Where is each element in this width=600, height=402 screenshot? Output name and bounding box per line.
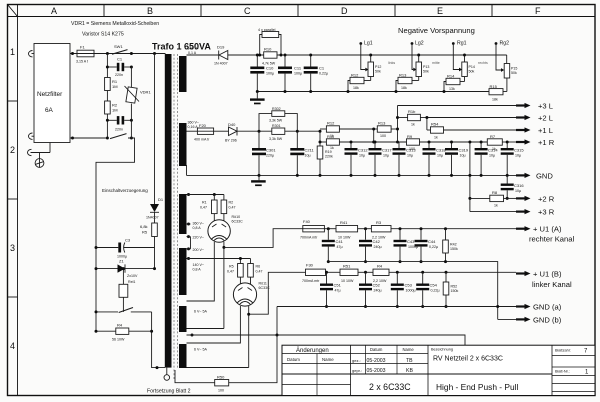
capacitor C1 bbox=[107, 57, 131, 78]
svg-text:3: 3 bbox=[10, 243, 15, 253]
potentiometer P15 bbox=[504, 55, 517, 78]
wire VDR bottom to sw row bbox=[130, 120, 132, 138]
svg-text:C3: C3 bbox=[125, 238, 131, 243]
resistor R12 bias bbox=[348, 73, 371, 92]
mains input terminal N bbox=[29, 133, 35, 139]
svg-text:F1: F1 bbox=[80, 45, 85, 50]
resistor R1b bbox=[398, 109, 427, 127]
node bus C10 bbox=[256, 90, 259, 93]
transformer secondary 6 bar bbox=[179, 344, 187, 368]
output arrow +2R bbox=[516, 195, 555, 204]
mains input terminal L bbox=[29, 51, 34, 57]
svg-text:200 V~: 200 V~ bbox=[193, 248, 205, 252]
svg-text:Rg1: Rg1 bbox=[457, 41, 467, 47]
svg-text:56 10W: 56 10W bbox=[112, 338, 125, 342]
resistor R3 bbox=[371, 220, 516, 240]
svg-text:1M: 1M bbox=[112, 108, 118, 113]
resistor R51 bbox=[340, 264, 373, 284]
svg-text:C317: C317 bbox=[382, 148, 392, 153]
svg-text:High - End Push - Pull: High - End Push - Pull bbox=[436, 382, 519, 392]
svg-text:18k: 18k bbox=[353, 86, 359, 90]
svg-text:05-2003: 05-2003 bbox=[367, 358, 386, 364]
capacitor C44 bbox=[415, 229, 439, 263]
svg-text:0,22µ: 0,22µ bbox=[319, 72, 328, 76]
svg-text:F30: F30 bbox=[306, 263, 314, 268]
resistor R42 bbox=[443, 229, 458, 262]
node N out bbox=[71, 137, 74, 140]
resistor R6 tube bbox=[248, 259, 263, 285]
svg-text:C42: C42 bbox=[373, 239, 381, 244]
winding tap to tube2 bbox=[187, 257, 251, 272]
svg-text:240µ: 240µ bbox=[374, 289, 382, 293]
resistor R1 bbox=[105, 78, 118, 91]
heater wire tube2 a bbox=[187, 306, 241, 343]
resistor R13 out bbox=[374, 121, 398, 139]
svg-text:C301: C301 bbox=[266, 148, 276, 153]
svg-text:0,47: 0,47 bbox=[200, 206, 207, 210]
node C52 bbox=[364, 271, 367, 274]
svg-text:1k: 1k bbox=[494, 204, 498, 208]
resistor R15 bias bbox=[489, 78, 507, 102]
node R52 top bbox=[445, 271, 448, 274]
resistor R4 softstart bbox=[96, 323, 152, 342]
main GND bus bbox=[187, 174, 517, 176]
svg-text:100: 100 bbox=[218, 389, 224, 393]
resistor R10 bbox=[262, 47, 277, 66]
svg-text:C314: C314 bbox=[488, 148, 498, 153]
node bus C1b bbox=[309, 90, 312, 93]
output arrow GND b bbox=[516, 316, 562, 325]
svg-text:50k: 50k bbox=[511, 71, 517, 75]
svg-text:R10: R10 bbox=[264, 47, 272, 52]
node R14 bus bbox=[443, 90, 446, 93]
svg-text:gez.:: gez.: bbox=[352, 358, 361, 363]
output arrow GND a bbox=[516, 303, 562, 312]
svg-text:R9: R9 bbox=[407, 134, 413, 139]
svg-text:18k: 18k bbox=[401, 86, 407, 90]
wire R2 to C2 row bbox=[106, 114, 108, 138]
winding tap 220V bbox=[187, 235, 205, 249]
riser R12 to R11 row bbox=[372, 128, 375, 144]
svg-text:C1: C1 bbox=[117, 57, 123, 62]
transformer primary winding bar bbox=[165, 54, 172, 368]
svg-text:Änderungen: Änderungen bbox=[296, 347, 329, 354]
svg-text:R12: R12 bbox=[351, 73, 359, 78]
wire R301 out bbox=[285, 130, 320, 132]
svg-text:F40: F40 bbox=[303, 219, 311, 224]
svg-text:150k: 150k bbox=[450, 247, 458, 251]
svg-text:R15: R15 bbox=[490, 84, 498, 89]
node R19 gnd bbox=[319, 174, 322, 177]
bias bottom bus bbox=[257, 91, 489, 93]
svg-text:2 x 6C33C: 2 x 6C33C bbox=[369, 382, 411, 392]
svg-text:P14: P14 bbox=[469, 65, 475, 69]
svg-text:mitte: mitte bbox=[432, 61, 440, 65]
node R12b bbox=[319, 130, 322, 133]
svg-text:700mA mtr: 700mA mtr bbox=[302, 279, 320, 283]
svg-text:Bezeichnung: Bezeichnung bbox=[431, 348, 453, 352]
svg-text:4: 4 bbox=[10, 341, 15, 351]
svg-text:100: 100 bbox=[380, 134, 386, 138]
node bottom row bbox=[156, 366, 159, 369]
capacitor C54 bbox=[416, 272, 439, 308]
svg-text:SW1: SW1 bbox=[114, 44, 123, 49]
svg-text:700mA mtr: 700mA mtr bbox=[300, 236, 318, 240]
svg-text:+3 L: +3 L bbox=[538, 102, 553, 111]
svg-text:F: F bbox=[535, 6, 541, 16]
svg-text:C318: C318 bbox=[436, 148, 446, 153]
wire R1 chain vertical bbox=[106, 54, 108, 78]
resistor R12 out bbox=[320, 121, 374, 139]
terminal Lg2 bbox=[411, 41, 424, 72]
svg-text:47µ: 47µ bbox=[335, 289, 341, 293]
svg-text:6C33C: 6C33C bbox=[232, 220, 244, 224]
node C211 tap bbox=[296, 130, 299, 133]
node gnd C301 bbox=[258, 174, 261, 177]
node gnd C211 bbox=[296, 174, 299, 177]
capacitor C313 bbox=[393, 142, 417, 177]
svg-text:B: B bbox=[147, 6, 153, 16]
wire +2L row bbox=[427, 117, 516, 119]
node R4 row bbox=[150, 330, 153, 333]
svg-text:10µ: 10µ bbox=[359, 154, 365, 158]
svg-text:R5: R5 bbox=[142, 230, 148, 235]
resistor parallel pack above R10 bbox=[258, 28, 281, 55]
node bus C11 bbox=[284, 90, 287, 93]
node C43 bbox=[399, 227, 402, 230]
capacitor C41 bbox=[322, 229, 344, 263]
svg-text:6,8k: 6,8k bbox=[140, 224, 148, 229]
svg-text:360 V~: 360 V~ bbox=[193, 222, 205, 226]
winding tap labels 360V bbox=[187, 222, 205, 231]
svg-text:C53: C53 bbox=[405, 283, 413, 288]
capacitor C315 bbox=[501, 141, 525, 177]
primary terminal O bbox=[164, 368, 170, 381]
heater wire tube2 b bbox=[187, 367, 249, 369]
svg-text:1N 4007: 1N 4007 bbox=[214, 62, 228, 66]
node C301 tap bbox=[258, 130, 261, 133]
wire +3R row bbox=[470, 211, 516, 213]
node Z1 right bbox=[153, 267, 156, 270]
svg-text:240µ: 240µ bbox=[374, 245, 382, 249]
svg-text:linker Kanal: linker Kanal bbox=[532, 280, 572, 289]
resistor R4b bbox=[373, 264, 516, 284]
riser R54 bbox=[425, 116, 428, 130]
resistor R301 bbox=[269, 124, 285, 141]
svg-text:0,47: 0,47 bbox=[229, 206, 236, 210]
svg-text:Blattzahl:: Blattzahl: bbox=[555, 349, 571, 353]
svg-text:1000µ: 1000µ bbox=[406, 289, 416, 293]
svg-text:R8: R8 bbox=[492, 190, 498, 195]
svg-text:10µ: 10µ bbox=[407, 154, 413, 158]
svg-text:+ U1 (A): + U1 (A) bbox=[533, 225, 562, 234]
svg-text:10 10W: 10 10W bbox=[341, 279, 354, 283]
node R42 top bbox=[444, 227, 447, 230]
svg-text:F20: F20 bbox=[199, 123, 207, 128]
ground symbol bias bbox=[250, 92, 265, 105]
svg-text:Rö11: Rö11 bbox=[259, 282, 267, 286]
svg-text:0,16 A: 0,16 A bbox=[188, 125, 199, 129]
svg-text:150k: 150k bbox=[451, 289, 459, 293]
earth symbol bbox=[35, 153, 44, 168]
node C51 bbox=[325, 271, 328, 274]
wire PE stub bbox=[49, 143, 51, 153]
svg-text:1: 1 bbox=[10, 47, 15, 57]
ground symbol main bbox=[251, 175, 266, 186]
svg-text:VDR1: VDR1 bbox=[140, 90, 151, 95]
svg-text:47µ: 47µ bbox=[337, 245, 343, 249]
svg-text:Name: Name bbox=[403, 347, 415, 352]
svg-text:Einschaltverzoegerung: Einschaltverzoegerung bbox=[102, 188, 148, 193]
svg-text:50k: 50k bbox=[375, 70, 381, 74]
svg-text:gepr.:: gepr.: bbox=[352, 368, 362, 373]
resistor R41 bbox=[336, 220, 371, 240]
output arrow +U1 B bbox=[516, 270, 572, 290]
node F1-SW1 bbox=[106, 52, 109, 55]
svg-text:R5: R5 bbox=[229, 265, 234, 269]
svg-text:0,22µ: 0,22µ bbox=[431, 289, 440, 293]
svg-text:10µ: 10µ bbox=[437, 154, 443, 158]
svg-text:C44: C44 bbox=[428, 239, 436, 244]
capacitor C318 bbox=[423, 141, 447, 177]
potentiometer P12 bbox=[368, 54, 381, 77]
svg-text:13k: 13k bbox=[449, 87, 455, 91]
node R12 bus bbox=[347, 90, 350, 93]
svg-text:C10: C10 bbox=[266, 66, 274, 71]
node contact left bbox=[95, 310, 98, 313]
node after filter bbox=[71, 52, 74, 55]
svg-text:0,8 A: 0,8 A bbox=[193, 268, 202, 272]
transformer secondary 2 bar bbox=[179, 123, 187, 166]
output arrow +1L bbox=[516, 126, 553, 135]
svg-text:GND: GND bbox=[536, 172, 553, 181]
svg-text:0,47: 0,47 bbox=[227, 270, 234, 274]
svg-text:R42: R42 bbox=[450, 243, 457, 247]
capacitor C3 bbox=[96, 238, 155, 259]
svg-text:TB: TB bbox=[406, 358, 413, 364]
node sw b right bbox=[130, 137, 133, 140]
winding tap 200V bbox=[187, 247, 205, 251]
svg-text:C1: C1 bbox=[319, 66, 325, 71]
node gnd ab join bbox=[496, 305, 499, 308]
bias supply: wire top row bbox=[187, 54, 507, 56]
svg-text:6 V~ 5A: 6 V~ 5A bbox=[194, 310, 207, 314]
svg-text:R41: R41 bbox=[340, 220, 348, 225]
tube Ro11 6C33C bbox=[233, 282, 270, 307]
svg-text:C211: C211 bbox=[305, 148, 315, 153]
svg-text:links: links bbox=[388, 61, 395, 65]
svg-text:360 V~: 360 V~ bbox=[188, 121, 200, 125]
svg-text:KB: KB bbox=[406, 368, 413, 374]
svg-text:Negative Vorspannung: Negative Vorspannung bbox=[398, 26, 475, 35]
svg-text:Datum: Datum bbox=[370, 347, 383, 352]
svg-text:R54: R54 bbox=[431, 122, 439, 127]
resistor R7 bbox=[487, 134, 516, 151]
svg-text:rechter Kanal: rechter Kanal bbox=[529, 235, 574, 244]
svg-text:Varistor S14 K275: Varistor S14 K275 bbox=[82, 32, 124, 38]
wire tube2 anode to F30 bbox=[248, 306, 250, 368]
wire R1-R2 bbox=[106, 91, 108, 102]
fuse F20 bbox=[194, 123, 214, 142]
output arrow GND bbox=[516, 172, 553, 181]
transformer core lines bbox=[174, 54, 178, 380]
resistor R13 bias bbox=[396, 73, 419, 92]
svg-text:C43: C43 bbox=[407, 239, 415, 244]
svg-text:D: D bbox=[341, 6, 348, 16]
svg-text:1k: 1k bbox=[411, 123, 415, 127]
node C2 left bbox=[106, 119, 109, 122]
svg-text:P13: P13 bbox=[423, 65, 429, 69]
riser +3L bbox=[396, 106, 399, 144]
node C1b top bbox=[309, 54, 312, 57]
wire R5 to C3 row bbox=[154, 237, 156, 269]
svg-text:R11: R11 bbox=[327, 134, 335, 139]
output arrow +3L bbox=[516, 102, 553, 111]
node C1 right bbox=[130, 66, 133, 69]
resistor R54 bbox=[427, 122, 516, 140]
tube Ro10 6C33C bbox=[208, 215, 243, 242]
wire D1 to R5 bbox=[154, 212, 156, 223]
node C44 bbox=[420, 227, 423, 230]
svg-text:100µ: 100µ bbox=[294, 72, 302, 76]
node R4 left bbox=[95, 330, 98, 333]
diode D19 bbox=[214, 45, 228, 66]
switch SW1 pole b bbox=[110, 134, 127, 139]
svg-text:6 V~ 5A: 6 V~ 5A bbox=[194, 348, 207, 352]
output arrow +3R bbox=[516, 208, 555, 217]
secondary 2 label bbox=[188, 121, 200, 130]
capacitor C317 bbox=[369, 141, 393, 177]
svg-text:C11: C11 bbox=[294, 66, 302, 71]
svg-text:140 V~: 140 V~ bbox=[193, 263, 205, 267]
svg-text:R3: R3 bbox=[376, 220, 382, 225]
svg-text:C312: C312 bbox=[358, 148, 368, 153]
svg-text:10µ: 10µ bbox=[383, 154, 389, 158]
svg-text:R19: R19 bbox=[325, 150, 332, 154]
svg-text:R7: R7 bbox=[490, 134, 496, 139]
terminal Lg1 bbox=[359, 41, 372, 72]
wire GND b stub bbox=[498, 318, 516, 320]
node D1 branch bbox=[153, 52, 156, 55]
svg-text:D19: D19 bbox=[217, 45, 225, 50]
wire +3L row bbox=[398, 105, 517, 107]
resistor R302 parallel bbox=[259, 107, 297, 131]
svg-text:220µ: 220µ bbox=[266, 154, 274, 158]
capacitor C314 bbox=[475, 141, 499, 177]
wire D40 out bbox=[237, 130, 272, 132]
node sw b left bbox=[106, 137, 109, 140]
capacitor C211 bbox=[290, 131, 314, 175]
varistor VDR1 bbox=[125, 67, 152, 120]
svg-text:Rel1: Rel1 bbox=[128, 280, 135, 284]
svg-text:P15: P15 bbox=[511, 67, 517, 71]
node C53 bbox=[396, 271, 399, 274]
svg-text:Rö10: Rö10 bbox=[232, 215, 241, 219]
wire F30 to R51 bbox=[326, 271, 341, 273]
svg-text:50k: 50k bbox=[469, 70, 475, 74]
svg-text:+1 L: +1 L bbox=[538, 126, 553, 135]
svg-text:+2 L: +2 L bbox=[538, 114, 553, 123]
wire F40 to R41 bbox=[324, 228, 336, 230]
node pack right bbox=[280, 54, 283, 57]
svg-text:rechts: rechts bbox=[478, 61, 488, 65]
fuse F40 bbox=[300, 219, 324, 240]
svg-text:Trafo 1 650VA: Trafo 1 650VA bbox=[152, 42, 211, 52]
capacitor C1 bias bbox=[304, 55, 328, 92]
svg-text:D1: D1 bbox=[158, 197, 164, 202]
svg-text:10µ: 10µ bbox=[489, 154, 495, 158]
svg-text:400 mA tr: 400 mA tr bbox=[194, 138, 210, 142]
wire mains top row bbox=[70, 53, 166, 55]
svg-text:R1b: R1b bbox=[408, 109, 416, 114]
svg-text:R13: R13 bbox=[399, 73, 407, 78]
resistor R1 tube bbox=[200, 195, 217, 222]
svg-text:0,1 A: 0,1 A bbox=[188, 51, 197, 55]
capacitor C10 bbox=[250, 55, 274, 92]
potentiometer P14 bbox=[462, 54, 475, 77]
svg-text:Z1: Z1 bbox=[119, 259, 124, 264]
potentiometer P13 bbox=[416, 54, 429, 77]
svg-text:10µ: 10µ bbox=[515, 189, 521, 193]
svg-text:C52: C52 bbox=[373, 283, 381, 288]
capacitor C301 bbox=[252, 131, 276, 175]
fuse F1 bbox=[76, 45, 94, 64]
capacitor C51 bbox=[320, 272, 342, 308]
svg-text:C316: C316 bbox=[514, 183, 524, 188]
diode D40 bbox=[225, 122, 237, 143]
node C41 bbox=[327, 227, 330, 230]
HV winding tap to tubes top bbox=[187, 193, 224, 196]
node R42 bottom bbox=[444, 260, 447, 263]
svg-text:Netzfilter: Netzfilter bbox=[37, 91, 63, 98]
svg-text:+2 R: +2 R bbox=[538, 195, 555, 204]
svg-text:R2: R2 bbox=[229, 201, 234, 205]
capacitor C2 bbox=[107, 116, 131, 131]
mains input terminal PE bbox=[28, 149, 51, 155]
wire secondary2 return bbox=[186, 165, 188, 175]
capacitor C43 bbox=[394, 229, 419, 263]
output arrow +2L bbox=[516, 114, 553, 123]
node C10 top bbox=[256, 54, 259, 57]
wire N row to switch pole b bbox=[70, 137, 108, 139]
capacitor C316 bbox=[501, 175, 525, 200]
resistor R50 bbox=[175, 335, 277, 393]
svg-text:R1: R1 bbox=[202, 201, 207, 205]
svg-text:R51: R51 bbox=[343, 264, 351, 269]
svg-text:C319: C319 bbox=[459, 148, 469, 153]
capacitor C42 bbox=[359, 229, 382, 263]
svg-text:GND (b): GND (b) bbox=[533, 316, 562, 325]
svg-text:1N4007: 1N4007 bbox=[146, 216, 159, 220]
svg-text:Blatt-Nr.:: Blatt-Nr.: bbox=[555, 370, 570, 374]
svg-text:R4: R4 bbox=[377, 264, 383, 269]
svg-text:3,15 A t: 3,15 A t bbox=[76, 60, 88, 64]
svg-text:+1 R: +1 R bbox=[538, 138, 555, 147]
node pack left bbox=[258, 54, 261, 57]
wire contact to primary bottom bbox=[152, 312, 165, 368]
transformer secondary 4 bar bbox=[179, 248, 187, 295]
svg-text:2: 2 bbox=[10, 145, 15, 155]
svg-text:50k: 50k bbox=[423, 70, 429, 74]
zener Z1 bbox=[96, 259, 155, 285]
capacitor C319 bbox=[445, 141, 469, 177]
svg-text:10µ: 10µ bbox=[305, 154, 311, 158]
svg-text:Rg2: Rg2 bbox=[500, 41, 510, 47]
svg-text:A: A bbox=[51, 6, 57, 16]
rechter GND bus bbox=[328, 262, 497, 320]
terminal Rg1 bbox=[452, 41, 467, 72]
resistor R19 bbox=[317, 146, 333, 175]
